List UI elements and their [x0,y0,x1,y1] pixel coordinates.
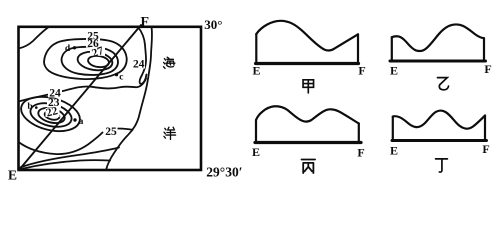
svg-text:c: c [119,73,123,83]
svg-text:a: a [79,117,84,127]
svg-text:d: d [65,44,71,54]
svg-text:F: F [357,146,364,160]
svg-text:25: 25 [105,126,117,138]
svg-text:E: E [252,64,260,78]
svg-text:F: F [484,62,491,76]
svg-text:29°30′: 29°30′ [206,164,242,179]
svg-text:F: F [358,64,365,78]
svg-text:E: E [252,145,260,159]
svg-text:24: 24 [133,59,145,71]
svg-text:b: b [27,102,32,112]
svg-text:30°: 30° [204,17,222,32]
svg-text:E: E [8,167,17,182]
svg-text:E: E [390,144,398,158]
svg-text:F: F [141,15,150,30]
svg-text:E: E [390,64,398,78]
svg-text:F: F [482,142,489,156]
